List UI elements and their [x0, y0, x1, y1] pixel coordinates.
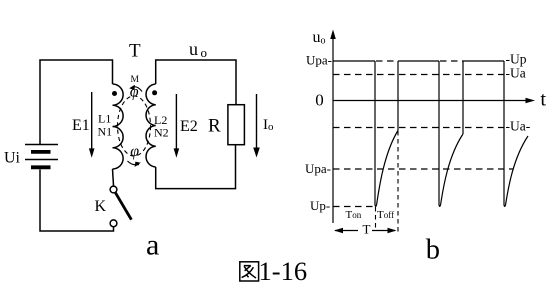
wire right loop bottom [156, 145, 236, 189]
dashed vertical period end [397, 131, 399, 234]
x axis [333, 100, 528, 102]
svg-text:T: T [363, 222, 371, 237]
T period arrow right [372, 230, 395, 232]
falling edges [375, 61, 504, 205]
svg-text:0: 0 [315, 91, 324, 110]
M arrow (mutual flux direction, top) [133, 87, 142, 92]
exp recovery curve 1 [375, 131, 398, 207]
flux path dashed ellipse [118, 96, 151, 156]
switch K terminal bottom [110, 220, 117, 227]
T period arrow left [335, 230, 358, 232]
svg-text:-Up: -Up [506, 52, 527, 67]
wire right loop top [156, 60, 236, 105]
svg-text:E1: E1 [72, 117, 90, 134]
svg-text:K: K [95, 198, 107, 215]
flux arrow bottom [128, 161, 140, 165]
battery Ui [25, 145, 58, 168]
svg-text:R: R [208, 116, 221, 137]
svg-text:Ui: Ui [4, 150, 21, 167]
pulse tops dashed [376, 60, 463, 62]
svg-text:Ton: Ton [346, 209, 362, 221]
dashed level Ua- [333, 127, 509, 129]
y axis [332, 36, 334, 223]
svg-text:N2: N2 [154, 126, 169, 140]
exp recovery curve 3 [504, 136, 528, 206]
polarity dot secondary [152, 90, 157, 95]
pulse tops solid [333, 60, 504, 62]
svg-text:φ: φ [130, 143, 139, 160]
dashed level Ua [333, 74, 509, 76]
rising edges [398, 61, 463, 134]
svg-text:b: b [426, 235, 440, 266]
svg-text:Upa-: Upa- [306, 53, 332, 68]
svg-text:Up-: Up- [310, 198, 330, 213]
svg-text:E2: E2 [180, 118, 198, 135]
winding L2 (secondary) [146, 84, 156, 167]
caption glyph tu (figure) [240, 262, 259, 281]
wire left loop bottom [40, 170, 114, 232]
svg-text:a: a [146, 228, 159, 261]
dashed level Up- [333, 206, 375, 208]
svg-text:1-16: 1-16 [259, 256, 308, 284]
svg-text:T: T [129, 41, 141, 62]
svg-text:L1: L1 [98, 112, 111, 126]
svg-text:t: t [540, 89, 546, 111]
svg-text:-Ua: -Ua [506, 66, 526, 81]
wire winding L1 to switch [113, 169, 114, 186]
svg-text:-Ua-: -Ua- [506, 119, 531, 134]
Io arrow [256, 94, 258, 148]
E2 arrow [175, 94, 177, 149]
svg-text:φ: φ [130, 84, 139, 101]
wire left loop top [40, 60, 113, 144]
svg-text:Toff: Toff [377, 209, 394, 221]
dashed level Upa- [333, 168, 513, 170]
switch K terminal top [110, 186, 117, 193]
polarity dot primary [112, 91, 117, 96]
switch K blade [116, 193, 132, 220]
svg-text:Upa-: Upa- [305, 161, 331, 176]
dashed vertical Ton/Toff divider [375, 207, 377, 228]
winding L1 (primary) [113, 84, 124, 169]
svg-text:N1: N1 [98, 125, 113, 139]
exp recovery curve 2 [439, 134, 463, 206]
resistor R [228, 105, 245, 145]
E1 arrow [91, 92, 93, 149]
